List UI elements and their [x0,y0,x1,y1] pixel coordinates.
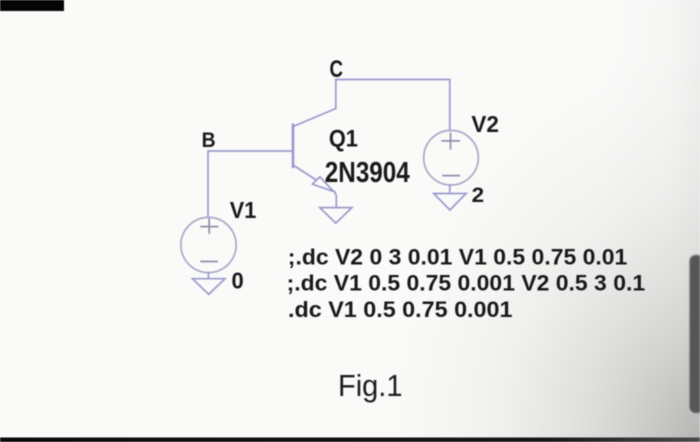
V1 circle [181,217,236,272]
transistor Q1 [293,109,336,193]
voltage source V2 [424,130,479,193]
wire from V1 to Q1 base (node B) [208,150,293,152]
V2 bottom stub wire [449,185,451,193]
svg-text:;.dc V2 0 3 0.01 V1 0.5 0.75 0: ;.dc V2 0 3 0.01 V1 0.5 0.75 0.01 [288,245,628,270]
V2 circle [424,130,479,185]
Q1 base bar [292,125,295,168]
wire from Q1 emitter down to ground [335,192,337,208]
svg-text:Q1: Q1 [329,126,358,153]
Q1 emitter arrow [313,177,334,192]
svg-text:2N3904: 2N3904 [325,157,410,189]
voltage source V1 [181,217,236,278]
bottom black bar [0,438,700,442]
svg-text:2: 2 [472,183,485,207]
V2 plus sign [442,133,460,149]
top-left black bar [0,0,64,11]
Q1 emitter stroke [293,165,335,192]
ground 2 (under V2) [434,194,466,211]
svg-text:V1: V1 [230,197,257,223]
svg-text:.dc V1 0.5 0.75 0.001: .dc V1 0.5 0.75 0.001 [288,297,513,322]
ground 0 (under V1) [193,279,226,295]
svg-text:Fig.1: Fig.1 [338,368,403,403]
right gray gradient shading [600,0,700,442]
svg-text:0: 0 [232,268,244,294]
scrollbar thumb [690,255,700,413]
svg-text:C: C [330,56,344,83]
svg-text:B: B [202,128,216,152]
bottom-right gray shading [390,60,700,442]
V1 bottom stub wire [208,273,210,279]
svg-text:V2: V2 [471,111,499,137]
V2 minus sign [443,175,460,177]
ground under emitter [320,208,352,224]
svg-text:;.dc V1 0.5 0.75 0.001 V2 0.5: ;.dc V1 0.5 0.75 0.001 V2 0.5 3 0.1 [287,271,645,296]
Q1 collector stroke [293,109,336,127]
V1 minus sign [201,261,217,263]
V1 plus sign [201,219,218,233]
wire from node B down to V1 plus terminal [207,151,209,218]
wire from Q1 collector (node C) to V2 plus terminal [336,80,450,132]
